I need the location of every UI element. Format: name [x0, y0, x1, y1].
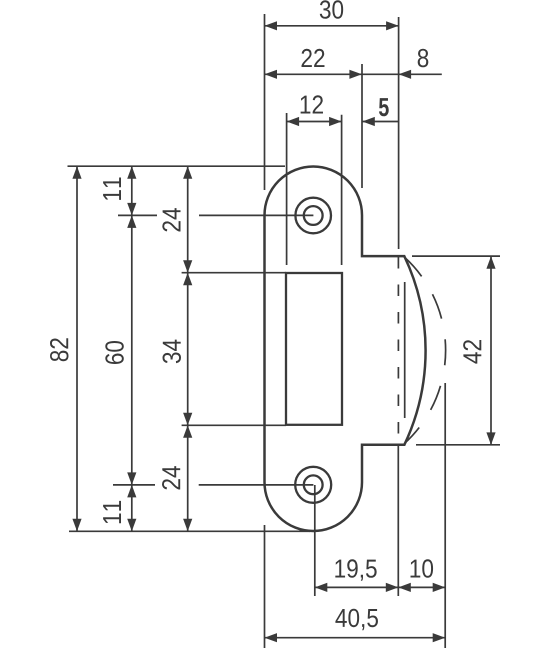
extension line cutout right	[341, 115, 343, 265]
dimension 82	[50, 166, 82, 531]
lip flat projection dashed curve	[404, 257, 445, 444]
extension line hole top center left	[118, 214, 157, 216]
dimension 24 top	[162, 166, 192, 531]
extension line hole bottom center left	[113, 484, 155, 486]
extension line plate left upper	[264, 14, 266, 190]
extension line lip top	[412, 255, 500, 257]
extension line cutout bottom	[182, 424, 286, 426]
extension line cutout left	[286, 113, 288, 265]
extension line plate bottom	[69, 530, 310, 532]
extension line cutout top	[182, 272, 286, 274]
extension line hole top center right	[199, 214, 313, 216]
extension line lip bulge	[444, 383, 446, 648]
dimension 12	[287, 95, 342, 126]
dimension 30	[265, 0, 399, 30]
extension line lip bottom	[416, 444, 500, 446]
dimension 10	[398, 559, 445, 592]
dimension 42	[463, 256, 496, 445]
dimension 11 bottom	[103, 485, 136, 531]
extension line lip edge lower	[397, 446, 399, 596]
dimension 8	[399, 49, 429, 79]
extension line plate top	[68, 165, 286, 167]
dimension 40,5	[265, 609, 446, 643]
extension line lip edge upper	[398, 17, 400, 249]
extension line plate right	[361, 64, 363, 188]
extension line plate left lower	[264, 525, 266, 648]
rectangular latch cutout	[286, 273, 342, 425]
extension line hole bottom vertical	[314, 485, 316, 596]
lip hidden edge dashed line	[397, 257, 399, 444]
extension line hole bottom center right	[199, 484, 314, 486]
dimension 11 top	[103, 166, 136, 531]
dimension 34	[163, 273, 193, 426]
dimension 24 bottom	[162, 425, 192, 531]
dimension 5 bold	[362, 98, 398, 126]
screw hole top	[295, 198, 331, 234]
strike plate outline with lip notch	[265, 167, 426, 532]
dimension 22	[265, 49, 442, 79]
dimension 60	[105, 215, 136, 485]
screw hole bottom	[295, 467, 331, 503]
lip bend tangent line	[404, 282, 406, 418]
dimension 19,5	[315, 559, 445, 592]
